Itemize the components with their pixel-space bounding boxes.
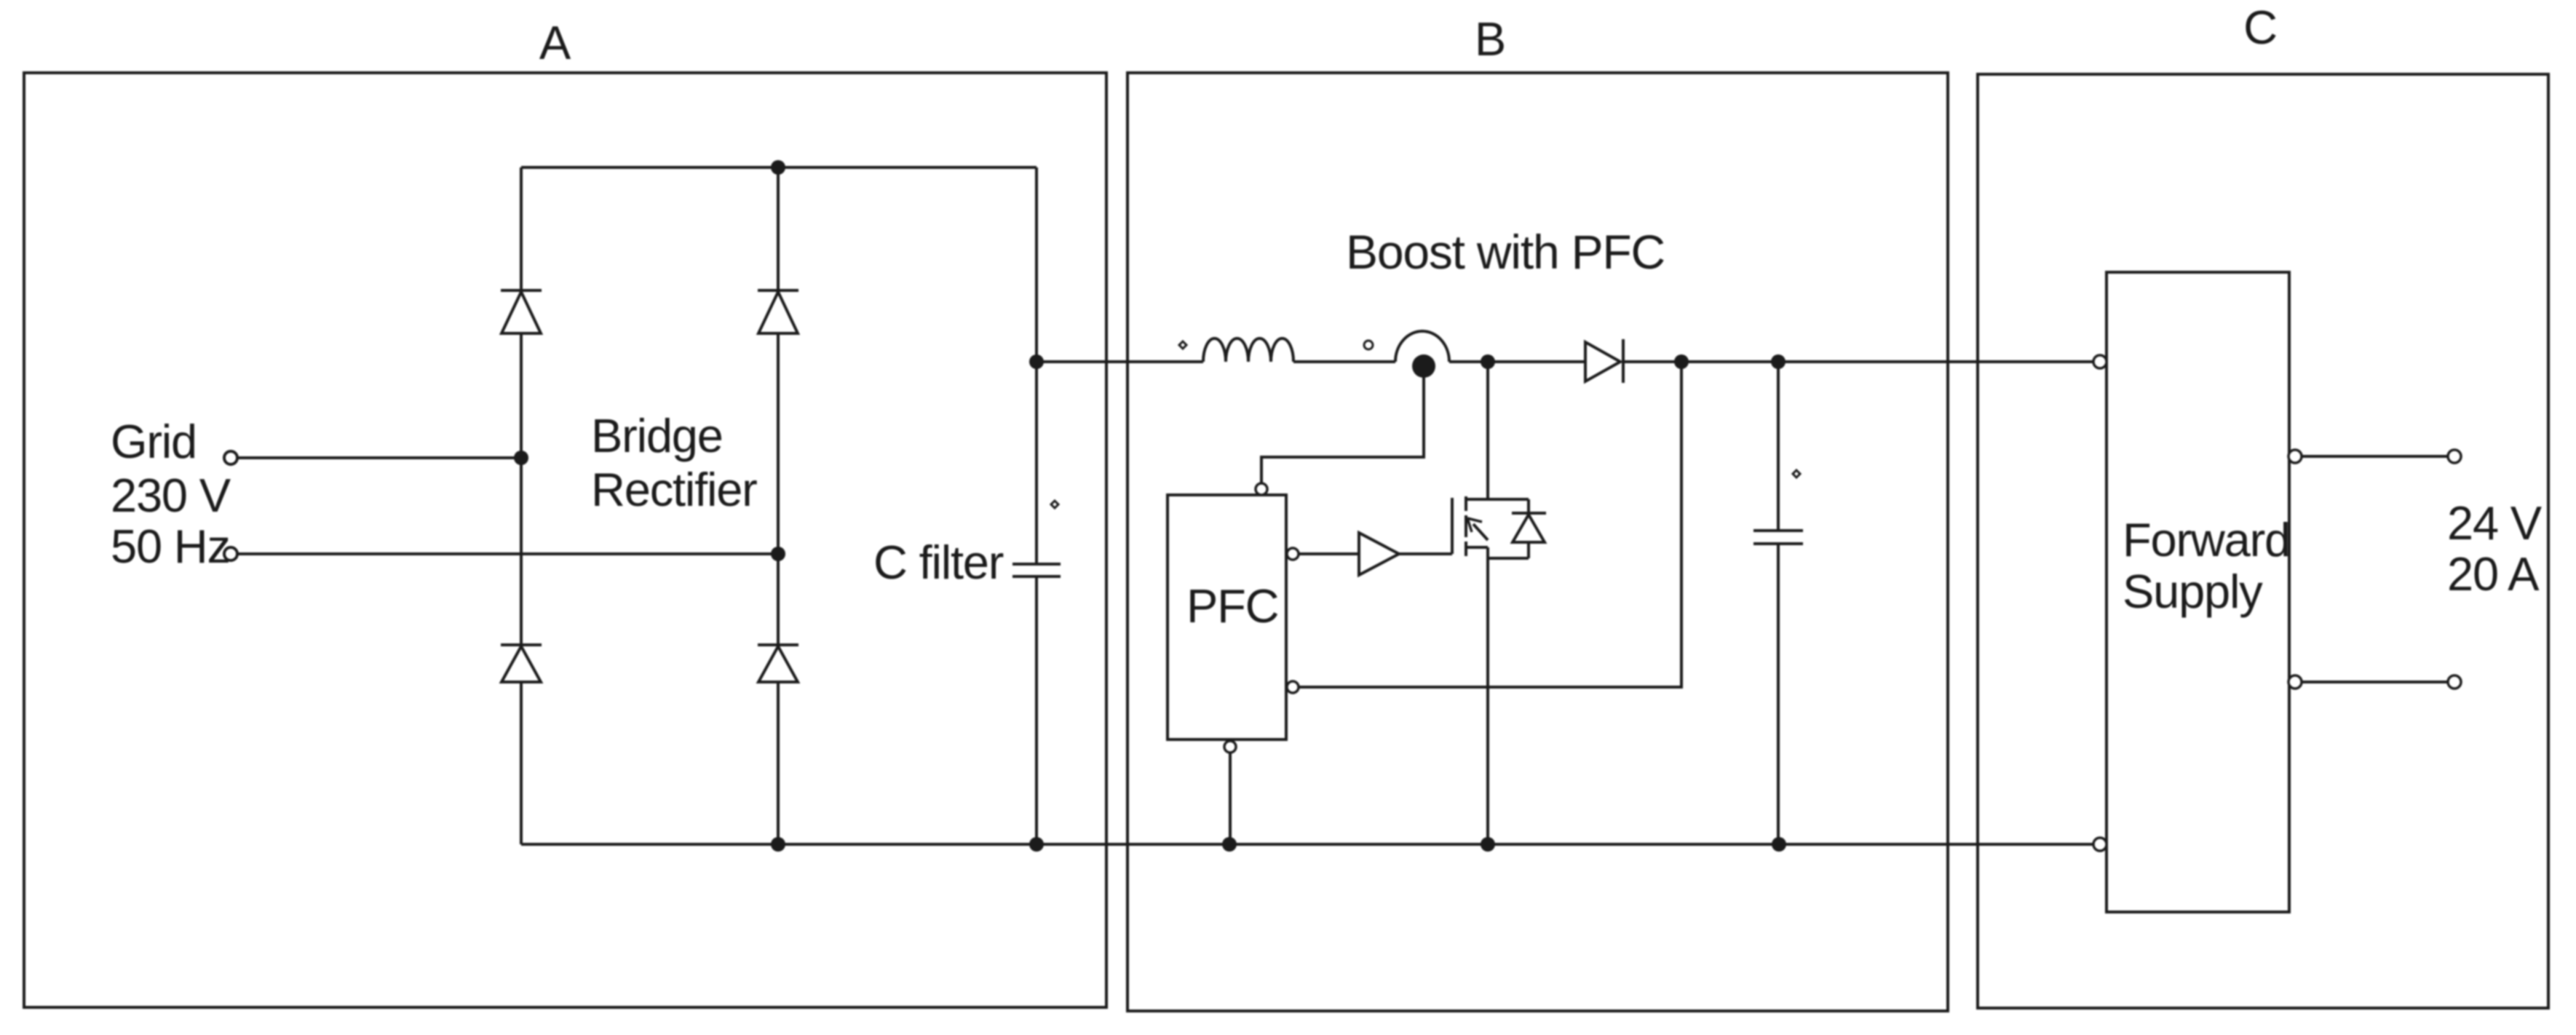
diode D4 (bridge bottom-right) <box>758 645 798 682</box>
node: junction rail / feedback <box>1674 354 1689 369</box>
pin: forward supply input + <box>2093 355 2107 368</box>
MOSFET Q1 <box>1452 362 1529 844</box>
grid source label "Grid 230 V 50 Hz" <box>111 415 231 573</box>
wire: driver output to gate <box>1399 552 1452 555</box>
gate driver U2 (triangle buffer) <box>1359 533 1399 575</box>
svg-text:Supply: Supply <box>2123 565 2263 618</box>
node: junction top rail / right branch <box>771 160 785 175</box>
svg-text:50 Hz: 50 Hz <box>111 520 230 573</box>
node: junction bottom rail / MOSFET source <box>1481 837 1495 852</box>
wire: sensor to boost diode <box>1449 360 1585 363</box>
wire: main rail C filter to inductor <box>1037 360 1203 363</box>
polarity marker of C1 <box>1051 501 1058 508</box>
current sensor node (big dot) <box>1412 354 1435 378</box>
forward supply block U3 <box>2107 272 2289 912</box>
node: junction bottom rail / PFC ground <box>1222 837 1237 852</box>
wire: PFC gate pin to driver input <box>1299 552 1359 555</box>
body diode of Q1 <box>1488 499 1546 558</box>
svg-text:PFC: PFC <box>1186 579 1278 632</box>
polarity marker right (small circle) <box>1364 341 1373 349</box>
svg-text:C: C <box>2243 1 2277 54</box>
svg-text:Forward: Forward <box>2123 513 2290 566</box>
pin: PFC top (current sense) <box>1256 483 1267 495</box>
wire: sensor to PFC top pin <box>1261 366 1424 485</box>
diode D5 (boost diode) <box>1585 339 1623 383</box>
svg-text:Grid: Grid <box>111 415 197 468</box>
pin: PFC right upper (gate out) <box>1287 548 1299 560</box>
wire: boost diode to forward supply <box>1623 360 2093 363</box>
current sensor arc <box>1395 331 1449 362</box>
wire: bridge top rail <box>521 166 1037 169</box>
section box B <box>1128 73 1948 1011</box>
wire: PFC ground pin to bottom rail <box>1229 753 1232 844</box>
svg-text:24 V: 24 V <box>2447 496 2543 550</box>
node: junction C filter / main rail <box>1029 354 1044 369</box>
pin: forward supply output + <box>2288 450 2302 463</box>
wire: grid top input to bridge left branch <box>237 456 521 459</box>
wire: inductor to current sensor <box>1293 360 1395 363</box>
diode D3 (bridge bottom-left) <box>501 645 542 682</box>
section box C <box>1978 74 2548 1008</box>
terminal: grid line input (top) <box>224 451 237 464</box>
pin: PFC right lower (voltage feedback) <box>1287 681 1299 693</box>
svg-text:20 A: 20 A <box>2447 547 2540 600</box>
svg-text:Bridge: Bridge <box>591 409 723 462</box>
wire: grid bottom input to bridge right branch <box>237 552 778 555</box>
svg-text:Rectifier: Rectifier <box>591 463 757 516</box>
svg-text:Boost with PFC: Boost with PFC <box>1346 225 1665 279</box>
svg-text:230 V: 230 V <box>111 469 231 522</box>
wire: bridge left branch vertical <box>520 167 523 844</box>
terminal: grid neutral input (bottom) <box>224 547 237 560</box>
node: junction bottom rail / right branch <box>771 837 785 852</box>
diode D2 (bridge top-right) <box>758 290 798 333</box>
PFC controller U1 <box>1168 495 1286 739</box>
terminal: output - <box>2448 675 2461 689</box>
wire: output - <box>2302 681 2448 683</box>
pin: PFC bottom (ground) <box>1224 741 1236 753</box>
node: junction grid bottom / right branch <box>771 547 785 561</box>
diode D1 (bridge top-left) <box>501 290 542 333</box>
wire: output + <box>2302 455 2448 458</box>
node: junction bottom rail / output capacitor <box>1772 837 1786 852</box>
svg-text:A: A <box>539 16 571 69</box>
polarity marker of C2 <box>1793 470 1800 477</box>
wire: bridge right branch vertical <box>777 167 780 844</box>
label "Bridge Rectifier" <box>591 409 757 516</box>
wire: bottom rail (bridge to forward supply) <box>521 843 2093 846</box>
svg-text:C filter: C filter <box>873 536 1004 589</box>
label "24 V 20 A" <box>2447 496 2543 600</box>
node: junction rail / output capacitor <box>1771 354 1786 369</box>
section box A <box>24 73 1106 1007</box>
capacitor C2 (boost output) <box>1753 362 1803 844</box>
node: junction main rail / MOSFET drain <box>1481 354 1495 369</box>
svg-text:B: B <box>1475 12 1505 66</box>
polarity marker left of inductor L1 <box>1179 341 1186 349</box>
pin: forward supply input - <box>2093 838 2107 851</box>
terminal: output + <box>2448 450 2461 463</box>
capacitor C1 "C filter" <box>1012 167 1061 844</box>
node: junction bottom rail / C filter <box>1029 837 1044 852</box>
wire: feedback from output rail to PFC <box>1299 362 1681 687</box>
pin: forward supply output - <box>2288 675 2302 689</box>
label "Forward Supply" <box>2123 513 2290 618</box>
inductor L1 <box>1203 338 1293 362</box>
node: junction grid top / left branch <box>514 451 528 465</box>
